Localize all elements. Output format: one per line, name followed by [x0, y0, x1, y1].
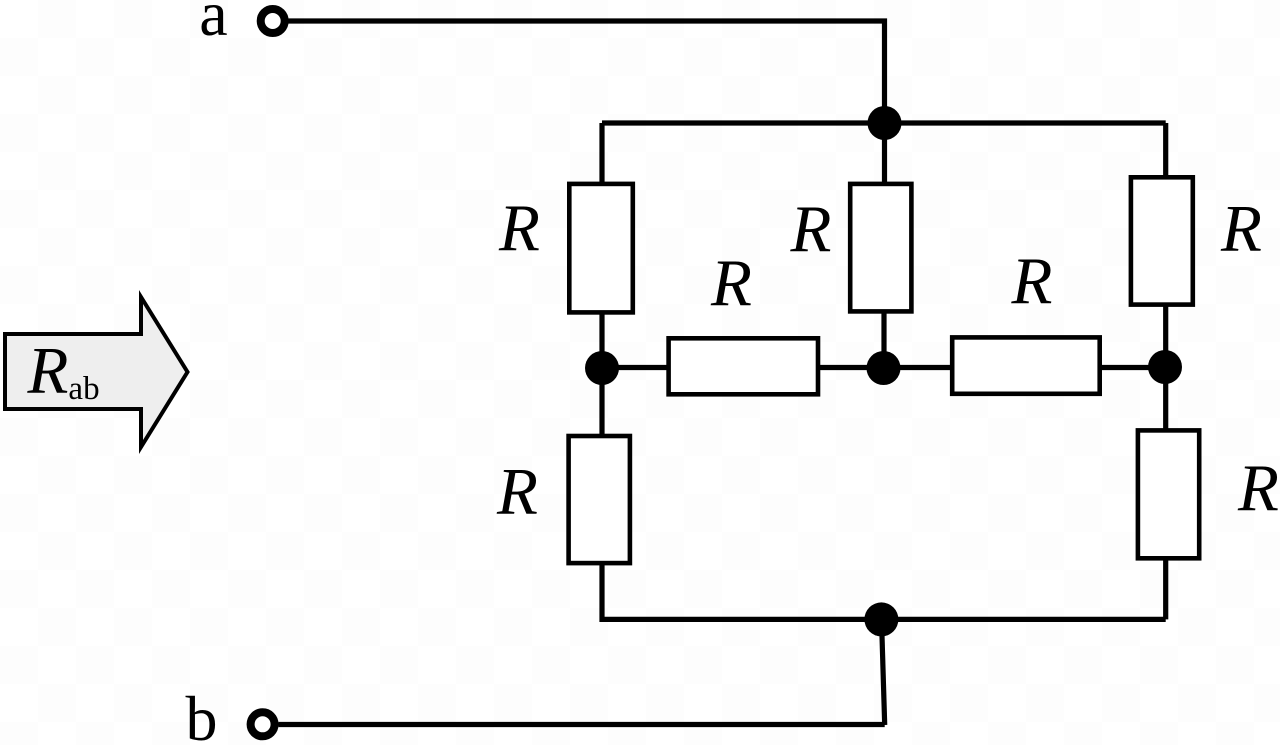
- wire middle column to node: [881, 313, 886, 368]
- svg-text:R: R: [498, 191, 540, 265]
- svg-text:R: R: [27, 334, 69, 408]
- resistor R bottom-left: [569, 436, 630, 563]
- wire terminal a lead: [288, 21, 885, 183]
- wire left column upper: [599, 123, 604, 184]
- svg-text:a: a: [199, 0, 227, 49]
- resistor R bottom-right: [1138, 430, 1199, 558]
- svg-text:b: b: [186, 683, 218, 745]
- terminal a circle: [261, 9, 285, 33]
- node junction middle-left: [585, 351, 619, 385]
- wire top bus: [602, 120, 1166, 125]
- wire left column lower + bottom bus: [602, 564, 1166, 619]
- wire node to terminal b stub: [882, 619, 885, 725]
- svg-text:R: R: [496, 455, 538, 529]
- wire left column middle: [599, 314, 604, 436]
- wire middle row segment 4: [1101, 365, 1166, 370]
- terminal b circle: [251, 712, 275, 736]
- resistor R middle-left horizontal: [669, 338, 818, 394]
- svg-text:R: R: [1220, 192, 1262, 266]
- resistor R top-middle: [850, 184, 911, 312]
- svg-text:ab: ab: [68, 371, 99, 407]
- node junction top: [868, 106, 902, 140]
- svg-text:R: R: [1011, 244, 1053, 318]
- resistor R middle-right horizontal: [952, 337, 1099, 393]
- wire terminal b lead: [279, 722, 885, 727]
- wire middle row segment 2: [819, 365, 884, 370]
- node junction bottom: [864, 602, 898, 636]
- arrow Rab: [5, 297, 188, 447]
- node junction middle-center: [867, 351, 901, 385]
- node junction middle-right: [1148, 350, 1182, 384]
- wire middle row segment 3: [884, 365, 951, 370]
- wire right column middle: [1163, 306, 1168, 430]
- wire right column lower: [1163, 559, 1168, 619]
- wire middle row segment 1: [602, 365, 668, 370]
- wire right column upper: [1163, 123, 1168, 178]
- svg-text:R: R: [1237, 451, 1279, 525]
- svg-text:R: R: [790, 192, 832, 266]
- resistor R top-left: [569, 184, 633, 313]
- resistor R top-right: [1131, 177, 1193, 304]
- svg-text:R: R: [710, 246, 752, 320]
